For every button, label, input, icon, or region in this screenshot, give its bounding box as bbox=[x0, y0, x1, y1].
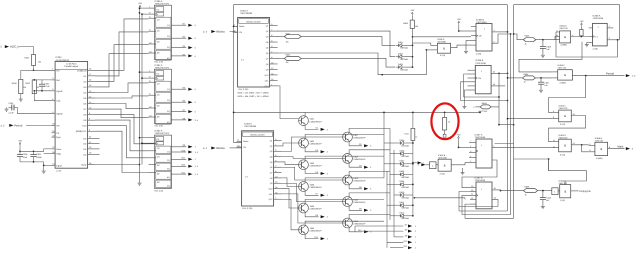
svg-text:BAT54A: BAT54A bbox=[402, 207, 410, 210]
svg-text:100nF: 100nF bbox=[36, 156, 42, 159]
svg-text:Binary counter: Binary counter bbox=[247, 20, 261, 23]
wire bus D0-D11 to latches bbox=[95, 19, 149, 70]
wire Cap pin bbox=[34, 94, 51, 101]
wire T407 collector bbox=[349, 128, 390, 132]
ground IC406B bbox=[465, 50, 467, 52]
resistor R301 bbox=[31, 55, 35, 66]
svg-text:Klocka: Klocka bbox=[216, 146, 225, 150]
resistor R409 bbox=[524, 189, 538, 193]
wire T410 emitter to port bbox=[349, 206, 362, 210]
svg-text:74HC4040N: 74HC4040N bbox=[240, 12, 252, 15]
transistor T403 bbox=[299, 160, 309, 170]
node VIN junction bbox=[33, 69, 35, 71]
wire IC406B Qbar out bbox=[492, 34, 511, 43]
wire long vertical v2 bbox=[510, 34, 512, 215]
wire D410 to bus bbox=[406, 194, 413, 196]
wire Q6 long bbox=[277, 53, 426, 75]
wire loop to IC404C bbox=[519, 42, 582, 72]
svg-text:BAT54A: BAT54A bbox=[401, 47, 409, 50]
wire qbar loop join bbox=[497, 203, 499, 207]
wire loop U2 bbox=[462, 195, 511, 214]
ground at C303 bbox=[6, 108, 8, 110]
svg-text:IC406 B: IC406 B bbox=[475, 59, 483, 62]
svg-text:12 bit: 12 bit bbox=[56, 170, 61, 173]
transistor T411 bbox=[343, 218, 353, 228]
svg-text:Clr: Clr bbox=[157, 138, 160, 141]
svg-text:CMM23903-F: CMM23903-F bbox=[310, 230, 323, 233]
wire D407 to bus bbox=[406, 163, 413, 165]
wire D412 to bus bbox=[406, 215, 413, 217]
ground C409 bbox=[542, 54, 544, 56]
wire rail right segment bbox=[514, 5, 620, 40]
port Q12 bbox=[171, 165, 186, 167]
wire Period to A/C bbox=[26, 124, 52, 126]
wire IC407B Q out bbox=[492, 189, 501, 191]
wire T410 collector bbox=[349, 193, 390, 197]
svg-text:10uF: 10uF bbox=[23, 156, 28, 159]
wire +5V to IC407A pin bbox=[458, 140, 460, 147]
svg-text:+5V: +5V bbox=[18, 140, 22, 143]
wire long vertical v1 bbox=[507, 5, 509, 211]
wire IC407B Qbar bbox=[492, 199, 498, 202]
svg-text:R/A, 3 (26): R/A, 3 (26) bbox=[243, 207, 253, 210]
svg-text:Agnd1: Agnd1 bbox=[56, 90, 63, 93]
port Q2 bbox=[171, 37, 186, 39]
svg-text:AD7870/BCW: AD7870/BCW bbox=[56, 59, 71, 62]
wire gate inputs bbox=[431, 45, 438, 47]
wire loop U1 bbox=[459, 192, 508, 212]
wire Mark out bbox=[608, 148, 625, 150]
svg-text:BAT54A: BAT54A bbox=[402, 186, 410, 189]
svg-text:&: & bbox=[564, 114, 566, 118]
svg-text:3 (15): 3 (15) bbox=[560, 153, 566, 156]
svg-text:R/A, 2 (6): R/A, 2 (6) bbox=[155, 190, 164, 193]
svg-text:BAT54A: BAT54A bbox=[402, 144, 410, 147]
wire caps to ground bbox=[20, 162, 44, 170]
svg-text:IC407 B: IC407 B bbox=[475, 176, 483, 179]
wire Period out bbox=[572, 75, 624, 77]
wire T406 emitter to port bbox=[305, 235, 318, 239]
wire IC403C out loop bbox=[549, 116, 586, 142]
wire v2 elbow bbox=[495, 143, 514, 145]
red highlight ellipse bbox=[431, 103, 458, 139]
svg-text:Vdig: Vdig bbox=[56, 153, 61, 156]
svg-text:1k: 1k bbox=[415, 136, 417, 139]
diode D407 bbox=[400, 162, 403, 165]
ground IC406A bbox=[587, 41, 589, 43]
svg-text:BAT54A: BAT54A bbox=[402, 165, 410, 168]
svg-text:IC406 A: IC406 A bbox=[593, 14, 601, 17]
port bus tap 1 bbox=[413, 162, 417, 164]
ground IC405B bbox=[462, 168, 464, 171]
svg-text:7: 7 bbox=[470, 140, 471, 143]
svg-text:74HC132: 74HC132 bbox=[558, 67, 567, 70]
svg-text:1k: 1k bbox=[37, 86, 39, 89]
wire R401 to diode D401 bbox=[301, 37, 395, 46]
svg-text:+5V: +5V bbox=[138, 2, 142, 5]
diode D401 bbox=[399, 44, 402, 47]
svg-text:IC303: IC303 bbox=[56, 56, 63, 59]
svg-text:1Q: 1Q bbox=[167, 88, 170, 91]
ground at Dgnd bbox=[43, 170, 45, 172]
wire IC405B out bbox=[451, 163, 469, 165]
svg-text:CMM23903-F: CMM23903-F bbox=[310, 208, 323, 211]
wire inverter to IC405B bbox=[436, 164, 438, 166]
wire Qbar to R408 bbox=[514, 34, 524, 40]
svg-text:4Q: 4Q bbox=[167, 121, 170, 124]
wire T409 emitter to port bbox=[349, 185, 362, 189]
resistor R410 bbox=[412, 112, 414, 128]
svg-text:CMM23903-F: CMM23903-F bbox=[310, 164, 323, 167]
diode D405 bbox=[400, 141, 403, 144]
wire diode bus bbox=[412, 37, 414, 67]
svg-text:Period: Period bbox=[606, 71, 615, 75]
wire Klocka to IC401 clk bbox=[230, 31, 238, 34]
resistor R302 bbox=[32, 80, 36, 94]
resistor R407 bbox=[580, 27, 582, 30]
wire cross link bbox=[499, 124, 514, 126]
capacitor C302 bbox=[41, 80, 43, 84]
svg-text:Dutycycle: Dutycycle bbox=[580, 190, 592, 193]
svg-text:CMM23903-F: CMM23903-F bbox=[353, 223, 366, 226]
wire D408 to bus bbox=[406, 173, 413, 175]
wire branch to R304 bbox=[21, 69, 34, 71]
wire node loop to dutycycle gate bbox=[549, 159, 587, 185]
wire rail to Clr pins bbox=[140, 7, 149, 9]
capacitor C409 bbox=[542, 40, 544, 47]
svg-text:1M: 1M bbox=[286, 40, 289, 43]
diode D412 bbox=[400, 214, 403, 217]
wire D405 input bbox=[384, 142, 397, 144]
wire IC406Bmid Qbar out bbox=[491, 85, 505, 87]
svg-text:&: & bbox=[600, 147, 602, 151]
wire R408 into gate bbox=[555, 37, 560, 40]
svg-text:A (696): A (696) bbox=[561, 44, 568, 47]
wire mesh vertical d bbox=[386, 171, 388, 247]
wire IC406Bmid loop2 bbox=[461, 82, 508, 101]
wire Agnd1 bbox=[34, 90, 51, 92]
svg-text:+5V: +5V bbox=[580, 20, 584, 23]
svg-text:1k: 1k bbox=[525, 43, 527, 46]
svg-text:A (696): A (696) bbox=[596, 157, 603, 160]
svg-text:12: 12 bbox=[553, 139, 555, 142]
svg-text:CE: CE bbox=[56, 132, 60, 135]
wire Q2 to diode D402 bbox=[277, 31, 395, 57]
IC303 right data pins D0-D11 bbox=[88, 69, 95, 71]
wire +5V to Vana bbox=[19, 146, 21, 151]
transistor T402 bbox=[299, 138, 309, 148]
wire T408 emitter to port bbox=[349, 163, 362, 167]
svg-text:CMM23903-F: CMM23903-F bbox=[353, 158, 366, 161]
capacitor C303 bbox=[9, 107, 12, 109]
svg-text:2 (26): 2 (26) bbox=[476, 53, 482, 56]
resistor R403 bbox=[411, 16, 413, 20]
svg-text:5: 5 bbox=[470, 145, 471, 148]
port Q6 bbox=[171, 101, 186, 103]
svg-text:CMM23903-F: CMM23903-F bbox=[310, 143, 323, 146]
svg-text:Clk: Clk bbox=[243, 146, 246, 149]
svg-text:IC401 A: IC401 A bbox=[240, 9, 248, 12]
wire node to IC406B bbox=[413, 36, 472, 38]
IC303 Busy pin bbox=[88, 164, 95, 166]
diode D402 bbox=[399, 55, 402, 58]
svg-text:R401 = 1M, R402 = NM -> 420Hz: R401 = 1M, R402 = NM -> 420Hz bbox=[238, 91, 269, 94]
wire rail to Clk pins bbox=[142, 13, 149, 15]
wire IC406Bmid loop1 bbox=[464, 74, 499, 97]
gate inverter X402 bbox=[430, 162, 437, 169]
svg-text:CMM23903-F: CMM23903-F bbox=[310, 186, 323, 189]
svg-text:10k: 10k bbox=[38, 61, 41, 64]
wire Agnd2 bbox=[14, 108, 52, 114]
capacitor C305 bbox=[33, 150, 35, 152]
svg-text:Byte: Byte bbox=[56, 136, 61, 139]
svg-text:CMM23903-F: CMM23903-F bbox=[353, 201, 366, 204]
svg-text:Clk: Clk bbox=[239, 31, 242, 34]
svg-text:&: & bbox=[564, 73, 566, 77]
wire D411 input bbox=[387, 204, 397, 206]
wire D407 input bbox=[384, 163, 397, 165]
svg-text:74HC4538: 74HC4538 bbox=[475, 136, 486, 139]
wire R402 to diode D403 bbox=[301, 58, 395, 67]
wire reset stub counter1 bbox=[233, 25, 235, 27]
wire bases column2 bbox=[282, 137, 343, 151]
svg-text:R410: R410 bbox=[405, 133, 409, 136]
svg-text:Clr: Clr bbox=[157, 72, 160, 75]
wire Vdig bbox=[44, 153, 52, 155]
wire control stubs bbox=[95, 137, 100, 139]
svg-text:A/C: A/C bbox=[56, 124, 60, 127]
wire D409 to bus bbox=[406, 183, 413, 185]
svg-text:ADC_in: ADC_in bbox=[10, 44, 20, 48]
transistor T406 bbox=[299, 225, 309, 235]
IC303 left pin labels bbox=[52, 69, 56, 71]
svg-text:Vana: Vana bbox=[56, 148, 62, 151]
resistor R304 bbox=[19, 79, 23, 93]
wire R408 to gate bbox=[536, 39, 560, 41]
wire T406 collector bbox=[305, 221, 384, 225]
svg-text:2Q: 2Q bbox=[167, 99, 170, 102]
wire gate feedback from Qbar bbox=[556, 32, 618, 57]
port D11 bbox=[171, 173, 186, 175]
svg-text:+5V: +5V bbox=[410, 9, 414, 12]
wire +5V to pin bbox=[458, 25, 460, 31]
wire T402 emitter to port bbox=[305, 148, 318, 152]
svg-text:Period: Period bbox=[14, 123, 23, 127]
diode D408 bbox=[400, 173, 403, 176]
wire ADC_in to R301 bbox=[20, 47, 34, 55]
svg-text:4: 4 bbox=[470, 155, 471, 158]
resistor R408 bbox=[523, 38, 536, 42]
svg-text:3 (15): 3 (15) bbox=[560, 123, 566, 126]
wire T408 collector bbox=[349, 150, 390, 154]
transistor T407 bbox=[343, 132, 353, 142]
wire IC406Bmid gnd pin bbox=[464, 90, 467, 105]
wire R404 to Q vertical bbox=[491, 106, 499, 108]
wire D406 to bus bbox=[406, 153, 413, 155]
wire IC403D input2 node bbox=[548, 158, 550, 160]
svg-text:74HC4040N: 74HC4040N bbox=[244, 125, 256, 128]
wire Dutycycle out bbox=[571, 190, 579, 192]
svg-text:1k: 1k bbox=[448, 121, 450, 124]
wire mesh vertical c bbox=[393, 150, 395, 237]
svg-text:Ref: Ref bbox=[56, 79, 60, 82]
svg-text:Reset: Reset bbox=[239, 25, 245, 28]
svg-text:BAT54A: BAT54A bbox=[402, 155, 410, 158]
svg-text:74HC/HCT374: 74HC/HCT374 bbox=[155, 132, 170, 135]
svg-text:Dgnd: Dgnd bbox=[56, 164, 62, 167]
wire T409 collector bbox=[349, 171, 390, 175]
wire IC404B input2 bbox=[582, 145, 589, 152]
diode D410 bbox=[400, 193, 403, 196]
transistor T408 bbox=[343, 154, 353, 164]
svg-text:3 (15): 3 (15) bbox=[440, 54, 446, 57]
wire Klocka to IC402 clk bbox=[230, 147, 242, 149]
svg-text:BAT54A: BAT54A bbox=[402, 217, 410, 220]
port Q5 bbox=[171, 88, 186, 90]
svg-text:Klocka: Klocka bbox=[216, 29, 225, 33]
transistor T405 bbox=[299, 203, 309, 213]
wire Period branch down bbox=[549, 76, 586, 113]
wire emitter tap join bbox=[354, 226, 356, 232]
svg-text:9: 9 bbox=[470, 150, 471, 153]
wire gate out to IC406A bbox=[571, 36, 589, 38]
svg-text:&: & bbox=[443, 46, 445, 50]
wire bottom diode bus bbox=[412, 140, 414, 215]
wire T404 collector bbox=[305, 178, 384, 182]
wire loop U3 bbox=[465, 204, 514, 218]
wire T402 collector bbox=[305, 134, 384, 138]
wire +5V rail transistors bbox=[234, 111, 480, 113]
IC303 control pins right bbox=[88, 137, 95, 139]
port Q1 bbox=[171, 24, 186, 26]
svg-text:&: & bbox=[444, 163, 446, 167]
wire T411 emitter to port bbox=[349, 228, 362, 232]
port Q7 bbox=[171, 111, 186, 113]
svg-text:74HC132: 74HC132 bbox=[595, 139, 604, 142]
svg-text:IC402 A: IC402 A bbox=[244, 123, 252, 126]
svg-text:2.2uF: 2.2uF bbox=[9, 112, 15, 115]
svg-text:Reset: Reset bbox=[243, 140, 249, 143]
op-amp IC303 ADC 12-bit bbox=[55, 62, 88, 169]
svg-text:BAT54A: BAT54A bbox=[402, 196, 410, 199]
port Q4 bbox=[171, 55, 186, 57]
svg-text:IC407 A: IC407 A bbox=[475, 133, 483, 136]
wire IC406A Q out bbox=[607, 27, 613, 29]
svg-text:Binary counter: Binary counter bbox=[251, 134, 265, 137]
wire inverter to IC404A bbox=[558, 190, 560, 192]
wire D411 to bus bbox=[406, 204, 413, 206]
svg-text:12 bit ADC: 12 bit ADC bbox=[66, 62, 77, 65]
wire bottom ports bbox=[355, 225, 403, 227]
ground C410 bbox=[542, 205, 544, 207]
svg-text:10k: 10k bbox=[415, 25, 418, 28]
ground latch rail bbox=[139, 182, 141, 184]
svg-text:1 (15): 1 (15) bbox=[560, 199, 566, 202]
svg-text:3Q: 3Q bbox=[167, 110, 170, 113]
capacitor C407 bbox=[540, 78, 542, 82]
wire T411 collector bbox=[349, 214, 390, 218]
svg-text:K/A, 2 (6): K/A, 2 (6) bbox=[155, 125, 164, 128]
svg-text:Parallel output: Parallel output bbox=[64, 65, 78, 68]
svg-text:+5V: +5V bbox=[457, 134, 461, 137]
svg-text:Agnd2: Agnd2 bbox=[56, 113, 63, 116]
resistor R402 bbox=[277, 57, 284, 59]
wire R403 to node bbox=[411, 28, 413, 36]
svg-text:4Q: 4Q bbox=[167, 57, 170, 60]
wire T404 emitter to port bbox=[305, 191, 318, 195]
wire VIN bbox=[34, 69, 52, 71]
svg-text:Mark: Mark bbox=[618, 146, 625, 149]
svg-text:IC406 B: IC406 B bbox=[476, 18, 484, 21]
resistor R401 bbox=[277, 36, 284, 38]
svg-text:A (696): A (696) bbox=[560, 81, 567, 84]
wire IC404C input2 bbox=[508, 77, 523, 79]
wire diode bus to IC407B bbox=[414, 197, 416, 199]
svg-text:74HC4538: 74HC4538 bbox=[475, 179, 486, 182]
svg-text:1M: 1M bbox=[23, 86, 26, 89]
svg-text:74HC4538: 74HC4538 bbox=[475, 62, 486, 65]
wire R409 to gate bbox=[538, 190, 552, 192]
wire T407 emitter to port bbox=[349, 142, 362, 146]
svg-text:BAT54A: BAT54A bbox=[401, 58, 409, 61]
svg-text:3Q: 3Q bbox=[167, 46, 170, 49]
wire IC406Bmid Q out bbox=[491, 72, 507, 74]
svg-text:3Q: 3Q bbox=[167, 168, 170, 171]
wire D412 input bbox=[390, 215, 397, 217]
wire T405 emitter to port bbox=[305, 213, 318, 217]
wire lower pin stubs bbox=[466, 39, 471, 41]
svg-text:2.2uF: 2.2uF bbox=[45, 85, 51, 88]
svg-text:Clk: Clk bbox=[479, 35, 482, 38]
svg-text:&: & bbox=[564, 189, 566, 193]
svg-text:74HC132: 74HC132 bbox=[559, 27, 568, 30]
svg-text:BAT54A: BAT54A bbox=[402, 176, 410, 179]
svg-text:6: 6 bbox=[470, 160, 471, 163]
transistor T404 bbox=[299, 182, 309, 192]
wire D408 input bbox=[390, 173, 397, 175]
port Q8 bbox=[171, 119, 186, 121]
diode D411 bbox=[400, 204, 403, 207]
wire R406 to gate bbox=[535, 77, 552, 79]
svg-text:1: 1 bbox=[493, 145, 494, 148]
wire D406 input bbox=[390, 153, 397, 155]
wire Busy routing bbox=[95, 164, 140, 166]
transistor T401 bbox=[299, 116, 309, 126]
gate inverter X403 bbox=[552, 188, 558, 195]
svg-text:CMM23903-F: CMM23903-F bbox=[310, 120, 323, 123]
diode D409 bbox=[400, 183, 403, 186]
ground C407 bbox=[540, 89, 542, 91]
port Q9 bbox=[171, 146, 186, 148]
svg-text:4, 5: 4, 5 bbox=[1, 124, 6, 127]
wire D409 input bbox=[387, 183, 397, 185]
svg-text:1k: 1k bbox=[524, 81, 526, 84]
resistor R404 bbox=[475, 106, 480, 108]
svg-text:3 (15): 3 (15) bbox=[440, 173, 446, 176]
wire to inverter bbox=[426, 164, 430, 166]
wire bases column1 bbox=[278, 86, 299, 119]
wire IC403C input2 bbox=[508, 118, 559, 120]
svg-text:CMM23903-F: CMM23903-F bbox=[353, 137, 366, 140]
svg-text:74HC4538: 74HC4538 bbox=[593, 17, 604, 20]
svg-text:&: & bbox=[564, 35, 566, 39]
port Q11 bbox=[171, 158, 186, 160]
capacitor C410 bbox=[542, 191, 544, 198]
wire IC406A Qbar to rail bbox=[607, 39, 619, 41]
wire D405 to bus bbox=[406, 142, 413, 144]
resistor R406 bbox=[523, 76, 536, 80]
wire T401 collector bbox=[304, 112, 306, 115]
